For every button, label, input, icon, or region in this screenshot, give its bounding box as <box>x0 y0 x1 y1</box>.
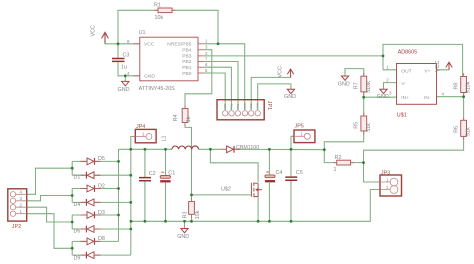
svg-text:GND: GND <box>177 234 189 240</box>
capacitor C2 <box>139 171 156 181</box>
wire diode row D9 <box>72 254 131 256</box>
inductor L1 <box>162 136 199 150</box>
op-amp U1 box <box>140 37 198 81</box>
svg-text:4: 4 <box>442 91 445 96</box>
svg-text:510k: 510k <box>465 81 471 93</box>
resistor R4 1k <box>173 109 192 123</box>
wire node up to right bus to R6 <box>364 136 464 162</box>
node bus drain branch <box>209 148 212 151</box>
svg-text:JP1: JP1 <box>266 101 272 110</box>
svg-text:GND: GND <box>284 94 296 100</box>
svg-text:PB2: PB2 <box>236 103 240 109</box>
wire JP2 pin1 to pair4 mid <box>27 214 72 249</box>
svg-text:51k: 51k <box>366 123 372 132</box>
diode D6 <box>74 226 101 235</box>
wire JP4 stub <box>131 137 136 150</box>
svg-text:JP2: JP2 <box>12 224 21 230</box>
svg-text:JP3: JP3 <box>381 170 390 176</box>
svg-text:R1: R1 <box>154 3 161 9</box>
svg-text:3: 3 <box>389 91 392 96</box>
svg-text:CBM1100: CBM1100 <box>236 145 259 151</box>
svg-text:GND: GND <box>256 102 260 110</box>
node pair1 input <box>71 167 74 170</box>
svg-text:VCC: VCC <box>91 25 97 36</box>
node R1/NRES <box>217 42 220 45</box>
node railA D3 <box>117 214 120 217</box>
node bottom bus R3 <box>190 220 193 223</box>
svg-text:D2: D2 <box>98 183 105 189</box>
wire JP1 pin5 to VCC arrow <box>251 75 290 110</box>
wire op-amp V- to GND <box>384 83 397 90</box>
node pair2 input <box>71 194 74 197</box>
svg-text:10k: 10k <box>195 210 201 219</box>
wire GND stub bottom bus <box>184 221 186 228</box>
connector JP3 <box>380 170 402 196</box>
diode D2 <box>81 183 105 192</box>
svg-text:D5: D5 <box>98 156 105 162</box>
wire diode row D8 <box>72 240 118 242</box>
resistor R7 510k <box>354 76 373 93</box>
svg-text:R3: R3 <box>182 211 188 218</box>
wire diode row D3 <box>72 214 118 216</box>
connector JP2 <box>8 189 27 230</box>
VCC symbol at JP1 pin5 <box>287 69 293 77</box>
svg-text:VCC: VCC <box>144 42 155 48</box>
wire diode row D6 <box>72 228 131 230</box>
node gate R3 <box>190 194 193 197</box>
svg-text:1: 1 <box>20 209 23 214</box>
diode D5 <box>81 156 105 165</box>
wire R3 to bottom bus <box>191 195 193 221</box>
ground at bottom bus <box>181 229 188 233</box>
svg-text:PB2: PB2 <box>182 59 192 65</box>
op pins stubs U1 <box>133 44 204 76</box>
resistor R6 51k <box>453 120 471 136</box>
wire C3 branch and GND stub pin4 <box>118 44 140 81</box>
wire R8 bottom to IN- pin4 <box>437 93 464 121</box>
svg-text:10k: 10k <box>155 15 164 21</box>
svg-text:2: 2 <box>386 77 389 82</box>
node bottom bus railB <box>130 220 133 223</box>
capacitor C1 polarized <box>160 171 175 182</box>
diode D7 CBM1100 schottky <box>221 145 260 153</box>
wire R5 bottom jog to bus <box>324 131 363 150</box>
VCC symbol at op-amp V+ <box>446 62 452 69</box>
wire JP1 pin6 to GND <box>258 84 291 110</box>
connector JP4 <box>135 124 156 143</box>
wire rail B <box>130 149 132 255</box>
svg-text:PB1: PB1 <box>182 65 192 71</box>
node bottom bus C2 <box>144 220 147 223</box>
node PB3/OUT <box>382 55 385 58</box>
wire rail A cathodes <box>118 149 120 241</box>
svg-text:4: 4 <box>20 190 23 195</box>
wire IN+ node R7 R5 <box>364 92 397 116</box>
svg-text:L1: L1 <box>162 136 168 142</box>
svg-text:JP5: JP5 <box>295 124 304 130</box>
svg-text:U$2: U$2 <box>221 187 231 193</box>
svg-text:R2: R2 <box>335 155 342 161</box>
wire op-amp OUT loop to R8 top <box>383 44 463 76</box>
connector JP1 <box>217 100 272 120</box>
svg-text:1: 1 <box>334 167 337 173</box>
wire JP2 pin2 to pair3 mid <box>27 207 72 222</box>
capacitor C3 1u <box>112 53 130 94</box>
wire PB3 long net to op-amp OUT <box>205 55 383 57</box>
wire PB0 to JP1 pin1 <box>205 73 225 110</box>
svg-text:D6: D6 <box>74 229 81 235</box>
svg-text:3: 3 <box>205 45 208 50</box>
svg-text:GND: GND <box>338 81 350 87</box>
wire JP5 stub and C5 <box>291 136 294 221</box>
wire diode row D2 <box>72 188 118 190</box>
svg-text:ATTINY45-20S: ATTINY45-20S <box>139 86 176 92</box>
svg-text:51k: 51k <box>465 127 471 136</box>
diode D9 <box>74 252 101 262</box>
svg-text:C1: C1 <box>168 171 175 177</box>
diode D8 <box>81 236 105 245</box>
wire diode pair verticals <box>71 161 73 255</box>
node bottom bus C1 <box>164 220 167 223</box>
svg-text:VCC: VCC <box>249 102 253 109</box>
svg-text:C4: C4 <box>276 170 283 176</box>
svg-text:1: 1 <box>142 132 145 137</box>
svg-text:1: 1 <box>300 132 303 137</box>
svg-text:2: 2 <box>386 185 389 190</box>
svg-text:PB3: PB3 <box>182 53 192 59</box>
svg-text:1k: 1k <box>186 116 192 122</box>
wire diode row D5 <box>72 160 118 162</box>
svg-text:GND: GND <box>118 87 130 93</box>
node railA D5 <box>117 160 120 163</box>
node railB D1 <box>129 174 132 177</box>
svg-text:3: 3 <box>20 196 23 201</box>
svg-text:IN-: IN- <box>424 95 431 101</box>
svg-text:510k: 510k <box>366 81 372 93</box>
resistor R1 10k <box>154 3 172 22</box>
wire R4 bottom to gate node <box>185 121 192 195</box>
svg-text:6: 6 <box>205 62 208 67</box>
connector JP5 <box>294 124 315 143</box>
node bottom bus C4 <box>268 220 271 223</box>
svg-text:V+: V+ <box>424 68 430 74</box>
svg-text:NRS: NRS <box>243 103 247 109</box>
svg-text:2: 2 <box>205 51 208 56</box>
svg-text:IN+: IN+ <box>401 95 409 101</box>
capacitor C4 polarized <box>265 170 283 181</box>
node GND pin4 <box>124 74 127 77</box>
wire drain branch from bus to MOSFET <box>210 149 258 182</box>
wire node down to JP3 pin1 <box>364 163 381 182</box>
svg-text:8: 8 <box>127 39 130 44</box>
node railB D4 <box>129 201 132 204</box>
node bus JP4 railB <box>129 148 132 151</box>
svg-text:R8: R8 <box>453 83 459 90</box>
wire R2 jog left <box>324 150 336 163</box>
svg-text:GND: GND <box>377 94 389 100</box>
svg-text:7: 7 <box>205 57 208 62</box>
wire gate node to MOSFET gate <box>192 194 251 196</box>
svg-text:R6: R6 <box>453 126 459 133</box>
svg-text:GND: GND <box>144 74 155 80</box>
wire C4 <box>268 149 270 221</box>
wire C2 <box>144 149 146 221</box>
IC U1 ATTINY45 <box>127 30 208 92</box>
node railB D6 <box>129 228 132 231</box>
svg-text:PB4: PB4 <box>182 48 192 54</box>
wire diode row D4 <box>72 201 131 203</box>
resistor R3 10k <box>182 202 201 220</box>
VCC symbol at U1 supply <box>102 32 109 43</box>
node bus JP5 C5 <box>290 148 293 151</box>
capacitor C5 <box>285 170 302 180</box>
svg-text:D3: D3 <box>98 210 105 216</box>
svg-text:NRES/PB5: NRES/PB5 <box>167 42 191 48</box>
wire C1 <box>165 149 167 221</box>
svg-text:PB0: PB0 <box>182 71 192 77</box>
wire R7 top to GND <box>345 69 364 77</box>
svg-text:R4: R4 <box>173 114 179 121</box>
wire VCC to U1 pin8 with R1 branch <box>105 10 218 44</box>
node bus C2 <box>144 148 147 151</box>
wire NRES/PB5 net to JP1 pin4 <box>205 44 245 110</box>
resistor R5 51k <box>354 116 373 132</box>
svg-text:1: 1 <box>205 39 208 44</box>
resistor pin stubs <box>155 10 464 217</box>
power symbols <box>102 32 453 232</box>
resistor R2 1 <box>334 155 351 173</box>
svg-text:D9: D9 <box>74 255 81 261</box>
wire diode row D1 <box>72 174 131 176</box>
node VCC/R1/C3 <box>117 42 120 45</box>
ground at U1 pin4 <box>122 81 129 86</box>
wire PB1 to JP1 pin2 <box>205 67 232 110</box>
node IN- R8 R6 <box>462 95 465 98</box>
svg-text:2: 2 <box>20 202 23 207</box>
op-amp U$1 AD8605 <box>386 50 444 119</box>
svg-text:D1: D1 <box>74 175 81 181</box>
node bottom bus GND <box>183 220 186 223</box>
wire op-amp V+ to VCC <box>437 68 450 70</box>
svg-text:1: 1 <box>386 177 389 182</box>
svg-text:PB1: PB1 <box>230 103 234 109</box>
svg-text:AD8605: AD8605 <box>398 50 417 56</box>
svg-text:R5: R5 <box>354 122 360 129</box>
ground at R7 top <box>341 76 348 80</box>
svg-text:PB0: PB0 <box>223 103 227 109</box>
svg-text:D4: D4 <box>74 202 81 208</box>
svg-text:C5: C5 <box>296 170 303 176</box>
svg-text:1u: 1u <box>121 65 127 71</box>
wire bottom return bus <box>131 190 380 222</box>
svg-text:U1: U1 <box>139 30 146 36</box>
svg-text:VCC: VCC <box>435 61 441 72</box>
node bus C4 <box>268 148 271 151</box>
ground at JP1 pin6 <box>287 89 294 93</box>
node railA D2 <box>117 187 120 190</box>
svg-text:V-: V- <box>401 81 406 87</box>
svg-text:5: 5 <box>205 68 208 73</box>
wire JP2 pin3 to pair2 mid <box>27 196 72 201</box>
wire JP2 pin4 to pair1 mid <box>27 168 72 194</box>
node IN+ R7 R5 <box>362 96 365 99</box>
svg-text:U$1: U$1 <box>397 112 407 118</box>
wire top storage bus left <box>119 148 325 150</box>
node bus R5 R2 <box>323 148 326 151</box>
ground at op-amp V- <box>380 89 387 93</box>
wire MOSFET source down <box>257 197 259 221</box>
wire PB4 to R4 <box>185 50 212 109</box>
node pair4 input <box>71 247 74 250</box>
node pair3 input <box>71 221 74 224</box>
svg-text:C3: C3 <box>123 53 130 59</box>
diode D4 <box>74 199 101 208</box>
svg-text:D8: D8 <box>98 236 105 242</box>
node bottom bus C5 <box>290 220 293 223</box>
wire R2 right to node <box>351 162 364 164</box>
svg-text:4: 4 <box>127 71 130 76</box>
mosfet U$2 <box>251 182 262 197</box>
svg-text:JP4: JP4 <box>136 124 145 130</box>
wire PB2 to JP1 pin3 <box>205 62 238 111</box>
resistor R8 510k <box>453 77 471 94</box>
svg-text:1: 1 <box>386 65 389 70</box>
diode D1 <box>74 172 101 181</box>
svg-text:OUT: OUT <box>401 68 411 74</box>
svg-text:C2: C2 <box>149 171 156 177</box>
svg-text:R7: R7 <box>354 82 360 89</box>
node bottom bus source <box>257 220 260 223</box>
node R2 JP3 right bus <box>362 161 365 164</box>
svg-text:VCC: VCC <box>278 66 284 77</box>
node bus C1 <box>164 148 167 151</box>
diode D3 <box>81 210 105 219</box>
